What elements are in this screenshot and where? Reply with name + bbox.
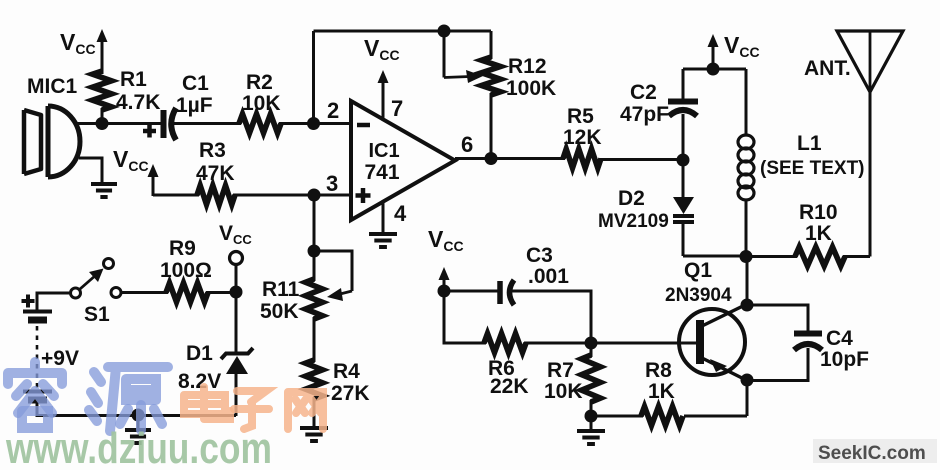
svg-text:47K: 47K <box>196 162 235 185</box>
svg-text:2: 2 <box>327 98 339 123</box>
svg-text:S1: S1 <box>84 303 110 326</box>
label R7 value <box>544 380 583 403</box>
battery 9V <box>23 312 52 401</box>
resistor R1 <box>93 71 112 110</box>
wire R7 top <box>590 343 593 357</box>
svg-text:D1: D1 <box>186 342 213 365</box>
ground (R7) <box>577 431 605 444</box>
wire node A to C1 <box>102 122 162 125</box>
node rail ground junction <box>132 409 145 422</box>
label pin 4 <box>394 201 407 226</box>
svg-text:R2: R2 <box>246 71 273 94</box>
svg-text:100K: 100K <box>506 77 556 100</box>
svg-text:22K: 22K <box>490 375 529 398</box>
node A junction <box>96 117 109 130</box>
node B junction <box>307 117 320 130</box>
label pin 7 <box>391 96 403 121</box>
svg-text:3: 3 <box>326 171 338 196</box>
svg-text:MV2109: MV2109 <box>598 211 669 232</box>
wire C3 left <box>444 290 499 293</box>
wire tank bottom <box>683 255 746 258</box>
node E junction <box>308 189 321 202</box>
watermark seekic <box>818 443 926 464</box>
svg-text:ANT.: ANT. <box>804 57 851 80</box>
label R7 <box>547 359 574 382</box>
label C2 <box>630 81 657 104</box>
wire battery top <box>37 293 70 310</box>
label D2 <box>618 187 645 210</box>
Vcc label (terminal) <box>219 222 252 247</box>
microphone MIC1 <box>24 106 80 177</box>
ground (rail) <box>125 430 151 443</box>
label R3 value <box>196 162 235 185</box>
wire R1 bottom <box>101 108 104 123</box>
label D1 value <box>178 370 221 393</box>
op-amp IC1 triangle <box>351 101 455 220</box>
svg-text:.001: .001 <box>528 265 569 288</box>
label R9 value <box>160 259 212 282</box>
node R7 bottom junction <box>585 410 598 423</box>
wire battery bottom <box>37 403 236 416</box>
wire R3 to pin3 <box>233 194 352 197</box>
wire D1 bottom <box>235 373 238 416</box>
label R10 <box>799 201 838 224</box>
Vcc arrow (R3) <box>148 164 159 196</box>
varactor diode D2 <box>673 197 694 222</box>
wire R5 to tank <box>599 158 684 161</box>
wire R11 top <box>313 251 316 281</box>
watermark rongyuan <box>8 362 168 431</box>
svg-text:D2: D2 <box>618 187 645 210</box>
antenna ANT <box>837 31 903 92</box>
wire C2 top <box>682 69 685 101</box>
label pin 3 <box>326 171 338 196</box>
wire pin3 node down <box>313 195 316 252</box>
ground (mic) <box>91 184 117 197</box>
svg-text:R12: R12 <box>508 55 547 78</box>
svg-text:IC1: IC1 <box>368 140 399 162</box>
node emitter junction <box>741 374 754 387</box>
label R3 <box>199 139 226 162</box>
label R6 value <box>490 375 529 398</box>
svg-text:R3: R3 <box>199 139 226 162</box>
svg-text:4: 4 <box>394 201 407 226</box>
node F junction <box>707 63 720 76</box>
svg-text:10K: 10K <box>544 380 583 403</box>
ground (pin 4) <box>369 234 397 247</box>
svg-text:R1: R1 <box>120 68 147 91</box>
inductor L1 <box>738 135 754 200</box>
Vcc arrow (R1 top) <box>97 29 108 62</box>
label R6 <box>488 357 515 380</box>
label IC1 <box>368 140 399 162</box>
svg-text:100Ω: 100Ω <box>160 259 212 282</box>
label L1 note <box>760 158 865 179</box>
wire C4 bottom <box>747 348 808 381</box>
label pin 6 <box>461 132 473 157</box>
resistor R9 <box>166 283 208 302</box>
transistor Q1 body <box>679 309 745 375</box>
wire C2 to node G <box>682 114 685 161</box>
wire to R10 <box>746 255 797 258</box>
wire R4 bottom <box>313 397 316 428</box>
node H junction <box>740 250 753 263</box>
label R11 value <box>260 300 299 323</box>
wire mic lower <box>79 158 102 184</box>
plus sign C1 <box>143 125 156 138</box>
node base junction <box>585 337 598 350</box>
label R2 value <box>242 92 281 115</box>
svg-text:741: 741 <box>364 161 399 184</box>
battery plus sign <box>22 295 35 308</box>
zener diode D1 <box>221 348 253 374</box>
capacitor C4 <box>794 334 822 351</box>
watermark url <box>5 424 272 470</box>
Vcc label (top-left) <box>60 29 96 57</box>
svg-text:6: 6 <box>461 132 473 157</box>
svg-text:(SEE TEXT): (SEE TEXT) <box>760 158 865 179</box>
label R5 <box>567 105 594 128</box>
svg-text:R7: R7 <box>547 359 574 382</box>
wire Vcc terminal <box>235 264 238 293</box>
label C4 <box>826 327 853 350</box>
watermark dianziwang <box>184 387 323 429</box>
R11 wiper arrow <box>314 251 352 301</box>
pin 4 wire <box>382 200 385 234</box>
svg-text:R10: R10 <box>799 201 838 224</box>
capacitor C1 <box>164 108 177 140</box>
wire L1 bottom <box>745 199 748 257</box>
Vcc terminal circle <box>230 252 243 265</box>
svg-text:8.2V: 8.2V <box>178 370 221 393</box>
wire rail gnd stub <box>137 415 140 431</box>
wire D2 bottom <box>682 222 685 256</box>
svg-text:50K: 50K <box>260 300 299 323</box>
label pin 2 <box>327 98 339 123</box>
wire tank top <box>683 68 746 71</box>
minus sign pin2 <box>357 123 370 128</box>
node collector junction <box>741 299 754 312</box>
resistor R7 <box>582 355 601 402</box>
wire antenna down <box>869 92 872 257</box>
wire R7 bottom stub <box>590 400 593 417</box>
resistor R5 <box>563 149 601 168</box>
wire switch to R9 <box>121 291 168 294</box>
Q1 emitter lead <box>702 358 745 380</box>
svg-text:+9V: +9V <box>41 347 79 370</box>
wire R6 right <box>524 342 591 345</box>
label D2 value <box>598 211 669 232</box>
node K junction <box>308 245 321 258</box>
potentiometer R12 <box>482 57 501 95</box>
label 741 <box>364 161 399 184</box>
wire R7 gnd stub <box>590 416 593 432</box>
label D1 <box>186 342 213 365</box>
svg-text:7: 7 <box>391 96 403 121</box>
svg-text:C4: C4 <box>826 327 853 350</box>
Vcc label (tank) <box>724 32 760 60</box>
Vcc label (pin7) <box>364 35 400 63</box>
wire feedback up <box>312 31 315 124</box>
label R8 value <box>648 380 675 403</box>
plus sign pin3 <box>356 188 371 203</box>
capacitor C2 <box>668 102 698 117</box>
svg-text:L1: L1 <box>797 132 822 155</box>
potentiometer R11 <box>306 279 323 319</box>
wire mic to node <box>77 122 104 125</box>
wire feedback top <box>314 30 492 33</box>
label R5 value <box>563 126 602 149</box>
wire R11 to R4 <box>313 317 316 362</box>
svg-text:4.7K: 4.7K <box>116 91 160 114</box>
svg-text:27K: 27K <box>331 382 370 405</box>
wire emitter to R8 <box>684 415 747 418</box>
wire pin6 <box>455 157 565 160</box>
label R12 value <box>506 77 556 100</box>
label Q1 <box>684 259 712 282</box>
Q1 collector lead <box>702 305 746 327</box>
wire R6 left <box>444 291 486 343</box>
resistor R3 <box>197 186 235 205</box>
svg-text:C3: C3 <box>526 244 553 267</box>
wire C1 to R2 <box>172 122 241 125</box>
label R2 <box>246 71 273 94</box>
node C junction <box>438 25 451 38</box>
resistor R10 <box>795 247 845 266</box>
svg-text:C2: C2 <box>630 81 657 104</box>
resistor R8 <box>641 407 683 426</box>
svg-text:R11: R11 <box>262 278 300 301</box>
node D junction <box>485 152 498 165</box>
R12 wiper arrow <box>444 70 483 83</box>
label C2 value <box>620 103 669 126</box>
svg-text:1K: 1K <box>805 222 832 245</box>
wire R9 to node <box>206 291 236 294</box>
label ANT <box>804 57 851 80</box>
svg-text:R4: R4 <box>333 360 360 383</box>
wire R12 bottom <box>490 93 493 158</box>
wire R3 left <box>153 194 199 197</box>
svg-text:10K: 10K <box>242 92 281 115</box>
svg-text:www.dziuu.com: www.dziuu.com <box>5 424 272 470</box>
svg-text:1K: 1K <box>648 380 675 403</box>
svg-text:R8: R8 <box>645 359 672 382</box>
wire R10 to ant <box>843 255 870 258</box>
switch S1 <box>71 259 122 299</box>
Vcc label (C3) <box>428 226 464 254</box>
svg-text:MIC1: MIC1 <box>27 75 77 98</box>
svg-text:10pF: 10pF <box>820 348 869 371</box>
wire R12 top <box>490 31 493 59</box>
wire R8 to R7 <box>591 415 643 418</box>
ground (R4) <box>300 428 328 441</box>
node I junction <box>438 285 451 298</box>
svg-text:SeekIC.com: SeekIC.com <box>818 443 926 464</box>
label Q1 type <box>665 285 732 306</box>
label C3 <box>526 244 553 267</box>
label R9 <box>169 237 196 260</box>
Vcc arrow (tank) <box>708 34 719 70</box>
label C3 value <box>528 265 569 288</box>
svg-text:2N3904: 2N3904 <box>665 285 732 306</box>
label R1 value <box>116 91 160 114</box>
capacitor C3 <box>500 280 514 305</box>
resistor R4 <box>306 360 323 399</box>
wire C3 right <box>512 291 591 344</box>
label C1 value <box>176 94 213 117</box>
svg-text:R5: R5 <box>567 105 594 128</box>
label C4 value <box>820 348 869 371</box>
label R4 value <box>331 382 370 405</box>
label battery voltage <box>41 347 79 370</box>
R12 wiper arm <box>443 31 446 78</box>
wire node G to D2 <box>682 160 685 198</box>
wire R1 top <box>101 57 104 74</box>
label R11 <box>262 278 300 301</box>
wire emitter down <box>746 380 749 416</box>
svg-text:12K: 12K <box>563 126 602 149</box>
label MIC1 <box>27 75 77 98</box>
svg-text:C1: C1 <box>182 72 209 95</box>
label R1 <box>120 68 147 91</box>
wire collector up <box>746 257 749 307</box>
resistor R6 <box>484 334 526 353</box>
svg-text:47pF: 47pF <box>620 103 669 126</box>
wire base <box>591 342 698 345</box>
wire L1 top <box>745 69 748 136</box>
svg-text:Q1: Q1 <box>684 259 712 282</box>
resistor R2 <box>239 114 281 133</box>
label R12 <box>508 55 547 78</box>
pin 7 Vcc arrow <box>378 70 389 121</box>
watermark seekic bg <box>813 439 937 463</box>
svg-text:R9: R9 <box>169 237 196 260</box>
label R4 <box>333 360 360 383</box>
node G junction <box>677 154 690 167</box>
Vcc arrow (C3) <box>439 267 450 292</box>
Vcc label (R3) <box>113 146 149 174</box>
wire C4 top <box>747 305 808 333</box>
svg-text:1µF: 1µF <box>176 94 213 117</box>
wire R2 to pin2 <box>279 122 352 125</box>
wire D1 top <box>235 292 238 354</box>
label S1 <box>84 303 110 326</box>
Q1 base bar <box>696 320 704 364</box>
label R10 value <box>805 222 832 245</box>
label C1 <box>182 72 209 95</box>
label R8 <box>645 359 672 382</box>
node J junction <box>230 286 243 299</box>
label L1 <box>797 132 822 155</box>
